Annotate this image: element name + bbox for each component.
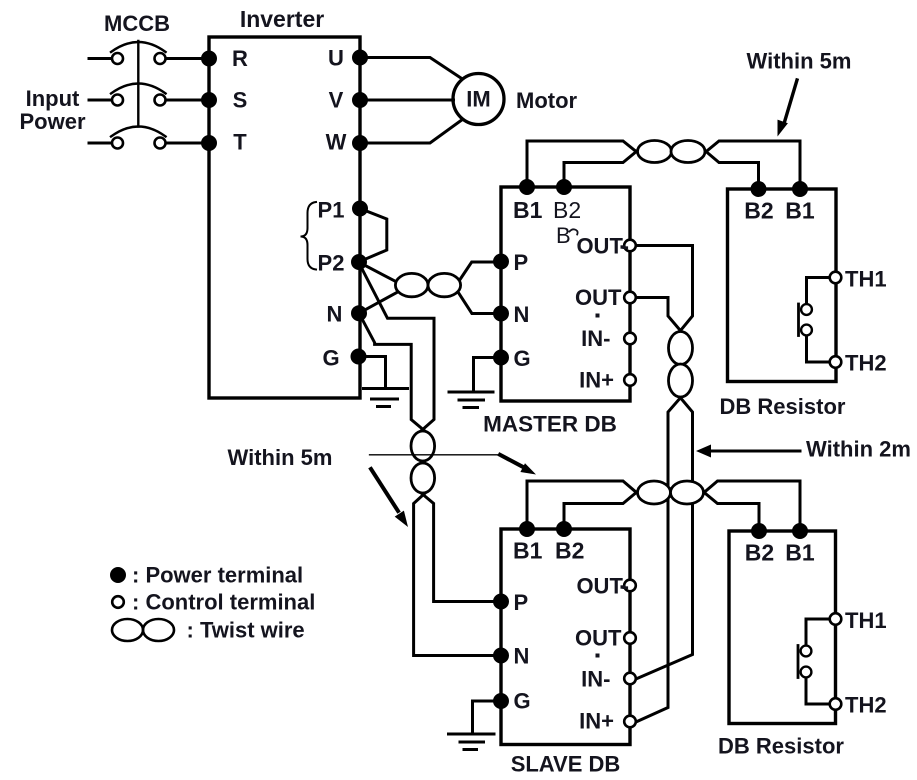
twist T5 ellipse 1 (638, 481, 671, 504)
svg-text:SLAVE DB: SLAVE DB (511, 752, 621, 777)
svg-text:TH2: TH2 (845, 693, 887, 718)
master dot P (495, 255, 508, 268)
SLAVE DB box (501, 529, 630, 745)
svg-text:G: G (514, 689, 531, 714)
wire W to motor (360, 121, 461, 144)
MCCB pole R: wire lead left (89, 57, 111, 60)
MCCB pole S contact circles (112, 95, 123, 106)
slave ground wire (473, 701, 495, 731)
MASTER DB box (501, 187, 630, 401)
svg-text:IN-: IN- (581, 326, 610, 351)
master OUT dot artifact (596, 314, 600, 318)
Within 5m thin pointer line (370, 454, 501, 456)
terminal dot P1 (354, 202, 367, 215)
svg-text:Input: Input (26, 86, 80, 111)
DB2 dot B1 (794, 525, 807, 538)
master dot B1 (521, 181, 534, 194)
svg-text:T: T (233, 130, 247, 155)
slave dot P (495, 595, 508, 608)
terminal dot P2 (353, 256, 366, 269)
wire MCCB pole T to inverter T (167, 142, 210, 145)
MCCB pole T contact circles (112, 138, 123, 149)
legend control terminal circle (112, 596, 124, 608)
svg-text:P: P (514, 590, 529, 615)
slave control circle IN+ (624, 716, 636, 728)
DB1 TH2 circle (830, 356, 842, 368)
wire P2 down to slave (diagonal, horizontal, vertical) (359, 262, 435, 435)
svg-text:P2: P2 (318, 251, 345, 276)
twist T1 ellipse 2 (428, 273, 461, 296)
svg-text:G: G (322, 346, 339, 371)
DB2 thermal contact wiring TH2 side (806, 678, 830, 704)
svg-text:IN+: IN+ (579, 368, 614, 393)
svg-text:TH1: TH1 (845, 267, 887, 292)
motor IM (453, 74, 504, 125)
svg-text:B2: B2 (744, 198, 773, 224)
MCCB pole S: wire lead left (89, 99, 111, 102)
legend twist wire symbol (112, 619, 143, 641)
master ground wire (474, 358, 495, 391)
svg-text:MASTER DB: MASTER DB (483, 412, 617, 437)
svg-text:TH1: TH1 (845, 608, 887, 633)
wire N down to slave (diagonal, horizontal, vertical) (359, 313, 429, 434)
svg-text:S: S (233, 88, 248, 113)
DB Resistor 1 box (728, 189, 837, 382)
terminal dot G (352, 350, 365, 363)
MCCB pole R contact circles (112, 53, 123, 64)
svg-text:B2: B2 (553, 197, 581, 223)
twist T1 right exit to master P (457, 262, 494, 284)
svg-text:MCCB: MCCB (104, 11, 170, 36)
slave control circle OUT (624, 632, 636, 644)
wire N to twist T1 bottom entry (359, 293, 397, 314)
master ground symbol (449, 391, 493, 394)
wire P2 to twist T1 top entry (359, 262, 397, 282)
twist T1 right exit to master N (457, 291, 494, 314)
wire master OUT- right and down (to slave IN-) (636, 246, 693, 337)
DB2 dot B2 (753, 525, 766, 538)
svg-text:B2: B2 (555, 538, 584, 564)
slave OUT dot artifact (596, 654, 600, 658)
slave ground symbol (449, 733, 495, 736)
svg-text:U: U (328, 46, 344, 71)
wire MCCB pole R to inverter R (167, 57, 210, 60)
MCCB pole R blade arc (111, 42, 166, 52)
slave dot B2 (558, 523, 571, 536)
wire pair below twist T4 to slave IN+ (637, 393, 685, 722)
DB1 thermal contact tick (797, 304, 800, 336)
DB2 TH1 circle (830, 613, 842, 625)
DB1 thermal contact wiring TH1 side (807, 278, 831, 304)
master dot G (495, 351, 508, 364)
svg-text:N: N (327, 302, 343, 327)
twist T2 bottom exit to slave N (414, 490, 494, 656)
slave dot G (495, 695, 508, 708)
wire master OUT right and down (to slave IN+) (636, 298, 685, 337)
terminal dot V (354, 94, 367, 107)
svg-text:B1: B1 (513, 197, 543, 223)
inverter box (209, 37, 360, 398)
twist T2 ellipse 1 (411, 431, 435, 461)
master dot N (495, 307, 508, 320)
terminal dot R (203, 52, 216, 65)
master control circle IN- (624, 333, 636, 345)
svg-text:: Power terminal: : Power terminal (132, 563, 303, 588)
twist T3 ellipse 2 (671, 141, 705, 163)
DB1 dot B1 (794, 183, 807, 196)
svg-text:V: V (329, 88, 344, 113)
svg-text:R: R (232, 46, 248, 71)
svg-text:OUT: OUT (575, 626, 622, 651)
DB Resistor 2 box (729, 531, 836, 724)
terminal dot U (354, 51, 367, 64)
svg-text:B1: B1 (785, 198, 815, 224)
svg-text:B1: B1 (785, 540, 815, 566)
DB2 thermal contact wiring TH1 side (806, 619, 830, 645)
twist T3 right exit to DB1 B2 (700, 146, 759, 183)
twist T3 right exit to DB1 B1 (700, 141, 801, 183)
terminal dot T (203, 137, 216, 150)
svg-text:IN+: IN+ (579, 709, 614, 734)
twist T5 right exit to DB2 B2 (697, 487, 759, 525)
svg-text:N: N (514, 644, 530, 669)
svg-text:Within 2m: Within 2m (806, 437, 911, 462)
svg-text:DB Resistor: DB Resistor (718, 734, 844, 759)
svg-text:P1: P1 (318, 198, 345, 223)
wire slave B2 up to twist T5 (564, 486, 644, 529)
svg-text:Inverter: Inverter (240, 6, 324, 32)
twist T3 ellipse 1 (638, 141, 672, 163)
Within 5m short arrow to slave B1 wire (500, 455, 524, 468)
DB2 thermal contact circles (801, 646, 812, 657)
svg-text:: Control terminal: : Control terminal (132, 590, 315, 615)
twist T2 bottom exit to slave P (417, 490, 494, 602)
svg-text:B2: B2 (745, 540, 774, 566)
terminal dot W (354, 137, 367, 150)
inverter ground symbol (364, 387, 408, 390)
wire master B1 up to twist T3 (527, 141, 643, 187)
legend power terminal dot (112, 569, 125, 582)
svg-text:IM: IM (466, 87, 490, 112)
Within 5m big arrow to twist pair (371, 469, 398, 511)
wire V to motor (360, 99, 454, 102)
slave dot B1 (521, 523, 534, 536)
slave control circle OUT- (624, 580, 636, 592)
svg-text:Power: Power (19, 109, 85, 134)
terminal dot S (203, 94, 216, 107)
MCCB mechanical tie line (137, 41, 139, 127)
MCCB pole T blade arc (111, 127, 166, 137)
DB1 thermal contact wiring TH2 side (807, 336, 831, 362)
wire slave B1 up to twist T5 (527, 481, 644, 529)
DB2 thermal contact tick (797, 646, 800, 678)
svg-text:OUT: OUT (575, 285, 622, 310)
wire U to motor (360, 58, 461, 79)
svg-text:B1: B1 (513, 538, 543, 564)
master control circle OUT (624, 292, 636, 304)
DB2 TH2 circle (830, 698, 842, 710)
DB1 thermal contact circles (801, 304, 812, 315)
MCCB pole S blade arc (111, 84, 166, 94)
slave control circle IN- (624, 673, 636, 685)
twist T2 ellipse 2 (411, 463, 435, 493)
twist T5 right exit to DB2 B1 (697, 481, 800, 525)
svg-text:Within 5m: Within 5m (747, 49, 852, 74)
jumper P1 to P2 (359, 209, 387, 263)
master control circle OUT- (624, 240, 636, 252)
svg-text:DB Resistor: DB Resistor (720, 394, 846, 419)
svg-text:TH2: TH2 (845, 351, 887, 376)
DB1 TH1 circle (830, 272, 842, 284)
terminal dot N (353, 307, 366, 320)
svg-text:G: G (514, 346, 531, 371)
twist T1 ellipse 1 (395, 273, 428, 296)
svg-text:N: N (514, 302, 530, 327)
master dot B2 (558, 181, 571, 194)
wire MCCB pole S to inverter S (167, 99, 210, 102)
master control circle IN+ (624, 374, 636, 386)
svg-text:: Twist wire: : Twist wire (187, 618, 305, 643)
svg-text:P: P (514, 250, 529, 275)
svg-text:Within 5m: Within 5m (228, 445, 333, 470)
wire master B2 up to twist T3 (564, 146, 643, 187)
svg-text:B: B (556, 223, 571, 248)
twist T5 ellipse 2 (671, 481, 704, 504)
svg-text:W: W (326, 130, 347, 155)
twist T4 ellipse 1 (669, 332, 693, 365)
inverter ground wire (358, 357, 386, 387)
svg-text:Motor: Motor (516, 88, 578, 113)
slave dot N (495, 649, 508, 662)
DB1 dot B2 (752, 183, 765, 196)
svg-text:IN-: IN- (581, 667, 610, 692)
MCCB pole T: wire lead left (89, 142, 111, 145)
wire pair below twist T4 to slave IN- (637, 393, 693, 679)
twist T4 ellipse 2 (669, 364, 693, 397)
brace for P1 P2 (301, 202, 317, 270)
Within 5m top arrow (785, 80, 798, 122)
Within 2m arrow (710, 450, 800, 453)
